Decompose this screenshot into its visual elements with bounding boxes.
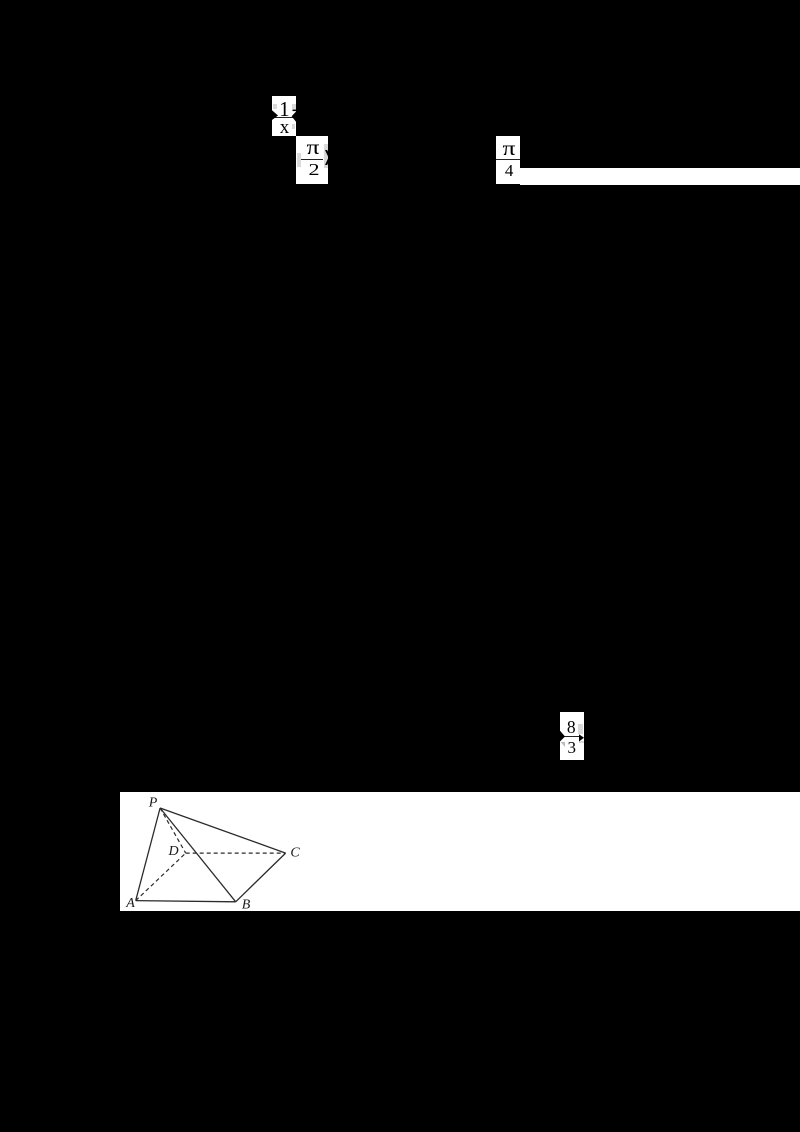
svg-text:A: A	[125, 896, 135, 911]
svg-text:D: D	[167, 844, 178, 859]
svg-text:B: B	[242, 897, 251, 912]
svg-text:C: C	[290, 845, 300, 860]
svg-text:P: P	[148, 795, 158, 810]
